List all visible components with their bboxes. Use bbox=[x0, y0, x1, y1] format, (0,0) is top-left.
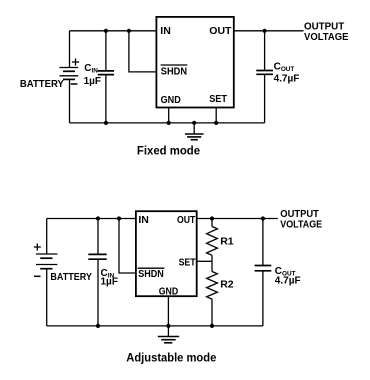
svg-text:IN: IN bbox=[138, 214, 149, 226]
ground symbol (fixed) bbox=[185, 123, 204, 140]
wire battery B2 negative lead bbox=[46, 269, 48, 326]
pin label SHDN with overbar (adjustable) bbox=[138, 268, 165, 280]
wire R1 to R2 bbox=[211, 255, 213, 271]
battery B2 bbox=[34, 244, 58, 277]
wire top rail VIN (adjustable) bbox=[47, 218, 136, 220]
wire SET pin to divider bbox=[197, 260, 212, 262]
label CIN 1uF (adjustable) bbox=[101, 268, 118, 288]
pin label SHDN with overbar (fixed) bbox=[161, 65, 188, 78]
wire bottom rail GND (adjustable) bbox=[47, 325, 263, 327]
node junction ground stem (fixed) bbox=[192, 121, 196, 125]
svg-text:1µF: 1µF bbox=[84, 76, 101, 87]
resistor R1 bbox=[207, 219, 218, 256]
regulator U1 box (fixed) bbox=[156, 17, 233, 108]
node junction CIN bottom (fixed) bbox=[104, 121, 108, 125]
node junction COUT top (adjustable) bbox=[261, 216, 265, 220]
svg-text:SHDN: SHDN bbox=[138, 268, 164, 280]
node junction CIN bottom (adjustable) bbox=[96, 324, 100, 328]
wire OUT to output (fixed) bbox=[234, 30, 304, 32]
regulator U2 box (adjustable) bbox=[136, 211, 197, 296]
capacitor C3 CIN (adjustable) bbox=[88, 219, 106, 326]
node junction GND (fixed) bbox=[167, 121, 171, 125]
svg-text:GND: GND bbox=[161, 94, 182, 106]
node junction CIN top (fixed) bbox=[104, 29, 108, 33]
resistor R2 bbox=[207, 272, 218, 326]
wire SHDN branch (fixed) bbox=[129, 31, 157, 72]
label COUT 4.7uF (fixed) bbox=[274, 61, 300, 84]
node junction SET (fixed) bbox=[214, 121, 218, 125]
node junction SHDN branch (adjustable) bbox=[117, 216, 121, 220]
svg-text:SET: SET bbox=[179, 256, 196, 268]
svg-text:VOLTAGE: VOLTAGE bbox=[304, 32, 349, 43]
wire battery B1 positive lead bbox=[69, 31, 71, 68]
svg-text:SET: SET bbox=[209, 93, 227, 105]
wire top rail VIN (fixed) bbox=[70, 30, 157, 32]
node junction CIN top (adjustable) bbox=[96, 216, 100, 220]
node junction GND (adjustable) bbox=[166, 324, 170, 328]
wire bottom rail GND (fixed) bbox=[70, 122, 265, 124]
capacitor C2 COUT (fixed) bbox=[256, 31, 273, 123]
svg-text:COUT: COUT bbox=[274, 61, 295, 73]
label CIN 1uF (fixed) bbox=[84, 63, 101, 87]
capacitor C1 CIN (fixed) bbox=[98, 31, 114, 123]
node junction SHDN branch (fixed) bbox=[127, 29, 131, 33]
wire SET pin to rail (fixed) bbox=[215, 108, 217, 123]
svg-text:SHDN: SHDN bbox=[161, 66, 187, 78]
svg-text:4.7µF: 4.7µF bbox=[275, 275, 301, 286]
wire battery B1 negative lead bbox=[69, 79, 71, 123]
capacitor C4 COUT (adjustable) bbox=[255, 219, 272, 326]
svg-text:VOLTAGE: VOLTAGE bbox=[280, 219, 322, 230]
svg-text:GND: GND bbox=[159, 285, 179, 297]
svg-text:Adjustable mode: Adjustable mode bbox=[126, 350, 216, 364]
label OUTPUT VOLTAGE (fixed) bbox=[304, 21, 349, 43]
svg-text:R1: R1 bbox=[220, 235, 234, 247]
wire GND pin to rail (adjustable) bbox=[167, 296, 169, 326]
node junction COUT top (fixed) bbox=[263, 29, 267, 33]
svg-text:OUTPUT: OUTPUT bbox=[304, 21, 344, 32]
svg-text:IN: IN bbox=[160, 25, 171, 37]
svg-text:R2: R2 bbox=[220, 278, 234, 290]
wire GND pin to rail (fixed) bbox=[168, 108, 170, 123]
label OUTPUT VOLTAGE (adjustable) bbox=[280, 209, 322, 230]
battery B1 bbox=[60, 58, 80, 84]
wire battery B2 positive lead bbox=[46, 219, 48, 255]
svg-text:OUT: OUT bbox=[177, 214, 196, 226]
svg-text:Fixed mode: Fixed mode bbox=[137, 143, 201, 157]
svg-text:OUT: OUT bbox=[209, 25, 232, 37]
label COUT 4.7uF (adjustable) bbox=[275, 266, 301, 287]
svg-text:4.7µF: 4.7µF bbox=[274, 73, 300, 84]
svg-text:CIN: CIN bbox=[84, 63, 98, 75]
node junction R1 top bbox=[210, 216, 214, 220]
wire SHDN branch (adjustable) bbox=[119, 219, 136, 274]
svg-text:BATTERY: BATTERY bbox=[50, 272, 92, 283]
ground symbol (adjustable) bbox=[158, 326, 179, 343]
svg-text:BATTERY: BATTERY bbox=[20, 79, 64, 90]
svg-text:1µF: 1µF bbox=[101, 277, 118, 288]
wire OUT to output (adjustable) bbox=[197, 218, 278, 220]
node junction R2 bottom bbox=[210, 324, 214, 328]
